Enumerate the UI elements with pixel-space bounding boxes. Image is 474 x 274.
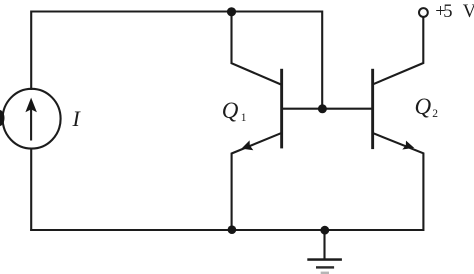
wire Q2 emitter diagonal bbox=[373, 133, 423, 231]
ground symbol bar 3 (faint) bbox=[321, 272, 329, 274]
current source arrowhead bbox=[25, 98, 37, 113]
ground symbol bar 1 bbox=[307, 258, 342, 261]
current source I bbox=[3, 89, 61, 149]
wire top rail bbox=[31, 10, 322, 12]
wire left branch upper bbox=[30, 11, 32, 91]
svg-text:V: V bbox=[463, 2, 474, 22]
transistor Q2 bar bbox=[371, 69, 374, 149]
junction dot ground / bottom rail bbox=[320, 226, 329, 235]
junction dot base node bbox=[318, 104, 327, 113]
junction dot top rail / Q1 collector bbox=[227, 7, 236, 16]
clipped blob at left edge bbox=[0, 110, 5, 126]
wire left branch lower bbox=[30, 148, 32, 231]
wire base line Q1 to Q2 bbox=[282, 108, 373, 110]
svg-text:I: I bbox=[72, 106, 82, 131]
wire Q1 collector to top rail bbox=[232, 12, 282, 85]
junction dot Q1 emitter / bottom rail bbox=[228, 225, 237, 234]
wire base tap from top rail bbox=[321, 11, 323, 109]
svg-text:Q: Q bbox=[222, 98, 239, 123]
wire Q1 emitter diagonal bbox=[232, 133, 281, 230]
svg-text:5: 5 bbox=[443, 2, 452, 22]
transistor Q1 bar bbox=[280, 69, 283, 149]
svg-text:2: 2 bbox=[432, 108, 438, 120]
svg-text:1: 1 bbox=[241, 112, 247, 124]
Q2 emitter arrowhead bbox=[402, 141, 414, 150]
wire bottom rail bbox=[30, 229, 423, 231]
wire Q2 collector bbox=[373, 17, 423, 84]
current source arrow shaft bbox=[30, 107, 32, 141]
wire ground stub bbox=[323, 231, 325, 260]
terminal +5V open circle bbox=[419, 8, 428, 17]
Q1 emitter arrowhead bbox=[241, 140, 253, 150]
ground symbol bar 2 bbox=[316, 266, 334, 268]
svg-text:Q: Q bbox=[415, 94, 432, 119]
